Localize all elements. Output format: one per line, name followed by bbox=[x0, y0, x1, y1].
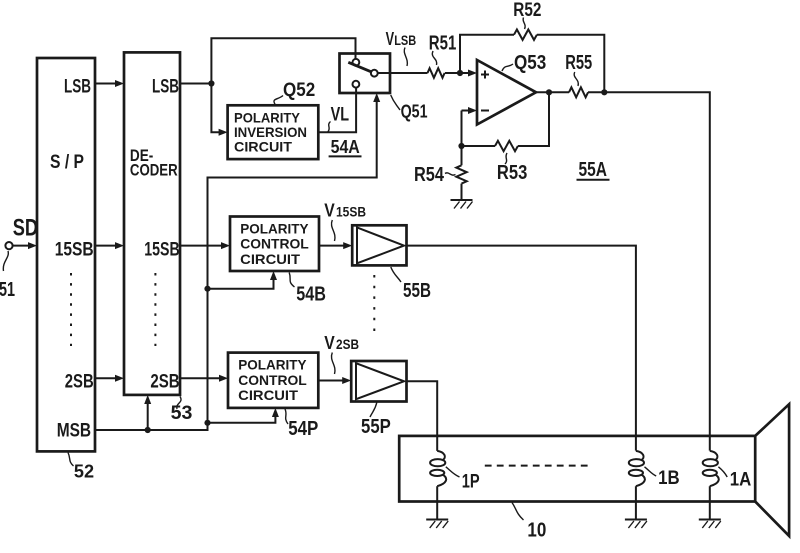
node LSB junction bbox=[208, 80, 214, 86]
svg-text:R51: R51 bbox=[429, 32, 457, 54]
decoder block 53 bbox=[124, 52, 180, 395]
wire op-amp output bbox=[536, 91, 569, 93]
acoustic line box 10 bbox=[399, 436, 755, 502]
wire 2SB S/P to decoder bbox=[95, 375, 124, 382]
svg-text:LSB: LSB bbox=[64, 76, 91, 97]
label 1P bbox=[446, 467, 480, 493]
label 53 bbox=[171, 397, 193, 425]
label V15SB bbox=[324, 200, 366, 241]
label VLSB bbox=[386, 29, 417, 66]
svg-text:CIRCUIT: CIRCUIT bbox=[234, 139, 292, 155]
label VL bbox=[328, 122, 331, 133]
svg-text:V: V bbox=[324, 333, 335, 353]
node output/R53 junction bbox=[546, 89, 552, 95]
polarity inversion circuit Q52 box 54A bbox=[228, 105, 319, 159]
resistor R53 bbox=[495, 141, 518, 151]
svg-text:54A: 54A bbox=[331, 137, 360, 157]
label 55B bbox=[391, 267, 431, 302]
svg-text:Q52: Q52 bbox=[283, 80, 315, 101]
label 54B bbox=[289, 273, 326, 306]
svg-text:R55: R55 bbox=[565, 52, 592, 74]
wire MSB bus bbox=[95, 93, 380, 430]
svg-text:R53: R53 bbox=[497, 162, 527, 184]
label R53 bbox=[497, 153, 527, 184]
svg-text:1A: 1A bbox=[730, 470, 752, 491]
svg-text:15SB: 15SB bbox=[55, 240, 94, 261]
svg-text:10: 10 bbox=[527, 520, 546, 542]
wire 54P to buffer 55P bbox=[318, 377, 351, 384]
svg-text:2SB: 2SB bbox=[336, 337, 359, 352]
label Q52 bbox=[274, 80, 315, 105]
dots column inside S/P bbox=[70, 273, 72, 346]
buffer amplifier 55P bbox=[351, 361, 406, 402]
svg-text:Q53: Q53 bbox=[514, 52, 546, 74]
svg-text:CIRCUIT: CIRCUIT bbox=[238, 387, 298, 403]
svg-text:51: 51 bbox=[0, 279, 15, 301]
wire R52 feedback loop bbox=[460, 35, 514, 73]
svg-text:CIRCUIT: CIRCUIT bbox=[240, 251, 300, 267]
ground below 1B bbox=[625, 520, 647, 529]
buffer amplifier 55B bbox=[352, 225, 406, 265]
speaker horn 1A bbox=[755, 404, 789, 536]
svg-text:V: V bbox=[324, 200, 335, 220]
node noninverting input junction bbox=[457, 70, 463, 76]
polarity control circuit box 54B bbox=[230, 217, 319, 272]
dashed line inside box 10 bbox=[485, 465, 593, 467]
label Q51 bbox=[391, 95, 428, 122]
svg-text:R54: R54 bbox=[414, 164, 445, 186]
wire R53 to output node bbox=[518, 92, 549, 146]
switch Q51 bbox=[340, 54, 391, 94]
label V2SB bbox=[324, 333, 359, 374]
resistor R52 bbox=[514, 30, 537, 40]
wire LSB S/P to decoder bbox=[95, 80, 124, 87]
wire 54B to buffer 55B bbox=[319, 242, 352, 249]
node MSB-decoder junction bbox=[145, 427, 151, 433]
resistor R54 bbox=[456, 146, 466, 200]
label R51 bbox=[429, 32, 457, 65]
wire 15SB to polarity control 54B bbox=[180, 242, 230, 249]
label 51 bbox=[0, 251, 15, 301]
wire junction to R53 bbox=[462, 145, 496, 147]
label 55P bbox=[361, 403, 391, 439]
label R55 bbox=[565, 52, 592, 86]
svg-text:52: 52 bbox=[74, 461, 94, 481]
label 54P bbox=[285, 409, 318, 440]
svg-text:54B: 54B bbox=[296, 283, 326, 305]
resistor R51 bbox=[428, 68, 445, 78]
ground below 1A bbox=[699, 520, 721, 529]
dots column inside decoder bbox=[154, 273, 156, 346]
svg-text:LSB: LSB bbox=[152, 76, 179, 97]
svg-text:2SB: 2SB bbox=[150, 371, 179, 392]
ground below 1P bbox=[426, 520, 448, 529]
wire 2SB to polarity control 54P bbox=[180, 375, 228, 382]
label 1B bbox=[645, 467, 680, 489]
svg-text:CONTROL: CONTROL bbox=[240, 236, 309, 252]
S/P converter block 52 bbox=[37, 58, 95, 451]
label 54A bbox=[329, 137, 362, 157]
node R53/R54 junction bbox=[458, 143, 464, 149]
ground below R54 bbox=[451, 200, 473, 209]
node 54B control junction bbox=[204, 286, 210, 292]
svg-text:53: 53 bbox=[171, 403, 193, 424]
resistor R55 bbox=[569, 87, 588, 97]
wire tap to 54P control bbox=[208, 408, 279, 423]
wire 55P output to coil 1P bbox=[407, 381, 438, 451]
wire decoder LSB output bbox=[180, 83, 211, 85]
svg-text:Q51: Q51 bbox=[401, 102, 428, 122]
svg-text:CODER: CODER bbox=[130, 161, 178, 180]
wire coil 1B to ground bbox=[635, 486, 637, 519]
wire MSB tap up into decoder bbox=[144, 395, 151, 430]
svg-text:54P: 54P bbox=[288, 418, 318, 440]
wire 55B output to coil 1B bbox=[407, 246, 636, 451]
wire SD into S/P bbox=[13, 245, 30, 247]
svg-text:15SB: 15SB bbox=[336, 204, 366, 219]
coil 1B bbox=[629, 451, 645, 486]
wire inverting input bbox=[462, 107, 478, 146]
label 1A bbox=[718, 467, 751, 491]
wire R51 to op-amp bbox=[445, 70, 477, 77]
op-amp Q53 bbox=[477, 60, 536, 125]
dots column between buffers bbox=[373, 275, 375, 333]
wire LSB down into polarity inversion circuit bbox=[211, 84, 227, 136]
svg-text:1B: 1B bbox=[658, 468, 680, 489]
svg-text:55P: 55P bbox=[361, 416, 391, 438]
polarity control circuit box 54P bbox=[228, 353, 318, 408]
label 10 bbox=[512, 503, 546, 542]
wire 15SB S/P to decoder bbox=[95, 242, 124, 249]
node SD input terminal bbox=[5, 214, 38, 249]
svg-text:R52: R52 bbox=[513, 0, 541, 21]
label 52 bbox=[68, 453, 94, 482]
label 55A bbox=[577, 159, 610, 181]
svg-text:55A: 55A bbox=[579, 159, 608, 181]
label Q53 bbox=[502, 52, 546, 74]
node R52 feedback junction bbox=[601, 89, 607, 95]
wire R52 to output node bbox=[537, 35, 604, 93]
svg-text:2SB: 2SB bbox=[65, 371, 94, 392]
svg-text:SD: SD bbox=[13, 214, 38, 241]
wire output to speaker coil 1A bbox=[588, 92, 710, 450]
svg-text:15SB: 15SB bbox=[144, 240, 179, 261]
wire coil 1P to ground bbox=[436, 486, 438, 519]
coil 1P bbox=[430, 451, 446, 486]
wire switch output VLSB bbox=[378, 72, 428, 74]
svg-text:MSB: MSB bbox=[57, 421, 91, 442]
label R52 bbox=[513, 0, 541, 29]
wire VL output of polarity inversion to switch bbox=[318, 88, 356, 133]
wire tap to 54B control bbox=[208, 271, 278, 289]
svg-text:POLARITY: POLARITY bbox=[238, 357, 307, 373]
svg-text:POLARITY: POLARITY bbox=[240, 220, 309, 236]
label R54 bbox=[414, 164, 456, 186]
svg-text:S / P: S / P bbox=[50, 152, 84, 173]
wire LSB up to switch top bbox=[211, 38, 355, 83]
svg-text:55B: 55B bbox=[403, 280, 431, 302]
svg-text:CONTROL: CONTROL bbox=[238, 372, 307, 388]
svg-text:LSB: LSB bbox=[394, 33, 416, 48]
coil 1A bbox=[703, 451, 719, 486]
node 54P control junction bbox=[204, 420, 210, 426]
wire coil 1A to ground bbox=[709, 486, 711, 519]
svg-text:VL: VL bbox=[331, 105, 350, 126]
svg-text:1P: 1P bbox=[462, 472, 480, 493]
svg-text:V: V bbox=[386, 29, 395, 49]
